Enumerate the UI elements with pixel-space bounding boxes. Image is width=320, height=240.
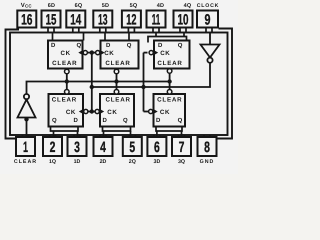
svg-text:15: 15 — [46, 11, 57, 28]
svg-text:12: 12 — [126, 11, 136, 28]
svg-text:1D: 1D — [74, 159, 81, 165]
svg-text:CK: CK — [61, 50, 71, 57]
svg-text:Q: Q — [52, 117, 57, 124]
svg-text:6Q: 6Q — [75, 3, 83, 9]
svg-text:D: D — [106, 42, 111, 49]
svg-text:9: 9 — [205, 11, 211, 28]
svg-text:CK: CK — [107, 109, 117, 116]
svg-text:CK: CK — [160, 109, 170, 116]
svg-text:CLEAR: CLEAR — [14, 159, 37, 165]
svg-text:2D: 2D — [100, 159, 107, 165]
svg-text:D: D — [103, 117, 108, 124]
svg-text:CLEAR: CLEAR — [157, 60, 182, 67]
svg-text:D: D — [51, 42, 56, 49]
svg-text:13: 13 — [98, 11, 108, 28]
svg-text:10: 10 — [178, 11, 189, 28]
svg-text:5: 5 — [129, 139, 135, 156]
svg-text:11: 11 — [152, 11, 160, 28]
svg-text:1Q: 1Q — [49, 159, 56, 165]
svg-text:6: 6 — [154, 139, 160, 156]
svg-text:GND: GND — [200, 159, 215, 165]
svg-text:4D: 4D — [157, 3, 164, 9]
svg-text:6D: 6D — [48, 3, 55, 9]
svg-text:D: D — [158, 42, 163, 49]
svg-text:Q: Q — [178, 117, 183, 124]
svg-text:D: D — [156, 117, 161, 124]
svg-text:CK: CK — [66, 109, 76, 116]
svg-text:Q: Q — [178, 42, 183, 49]
svg-text:Q: Q — [77, 42, 82, 49]
svg-text:7: 7 — [179, 139, 185, 156]
svg-text:CK: CK — [104, 50, 114, 57]
svg-text:VCC: VCC — [21, 2, 33, 9]
svg-text:4: 4 — [100, 139, 106, 156]
svg-text:3: 3 — [74, 139, 80, 156]
svg-text:5D: 5D — [102, 3, 109, 9]
svg-text:4Q: 4Q — [184, 3, 192, 9]
svg-text:5Q: 5Q — [130, 3, 138, 9]
svg-text:CK: CK — [160, 50, 170, 57]
svg-text:CLEAR: CLEAR — [157, 97, 182, 104]
svg-text:CLEAR: CLEAR — [52, 60, 77, 67]
svg-text:1: 1 — [23, 139, 28, 156]
svg-text:CLOCK: CLOCK — [197, 3, 219, 9]
svg-text:14: 14 — [70, 11, 81, 28]
svg-text:3Q: 3Q — [178, 159, 185, 165]
svg-text:CLEAR: CLEAR — [52, 97, 77, 104]
svg-text:CLEAR: CLEAR — [105, 60, 130, 67]
svg-text:8: 8 — [204, 139, 210, 156]
svg-text:D: D — [74, 117, 79, 124]
svg-text:16: 16 — [21, 11, 32, 28]
svg-text:Q: Q — [127, 42, 132, 49]
svg-text:2: 2 — [50, 139, 56, 156]
svg-text:Q: Q — [123, 117, 128, 124]
svg-text:2Q: 2Q — [129, 159, 136, 165]
svg-text:3D: 3D — [154, 159, 161, 165]
svg-text:CLEAR: CLEAR — [105, 97, 130, 104]
